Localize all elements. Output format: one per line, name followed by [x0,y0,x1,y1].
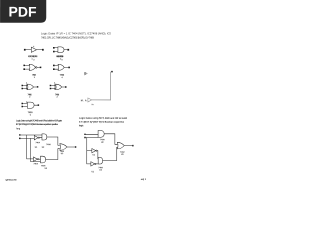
wire drop B [30,138,40,161]
inverter RU1b [91,162,95,166]
buffer arrow [88,98,92,102]
output pad L [75,146,76,147]
wire [64,66,68,68]
or-gate RU3 [117,142,124,149]
input pad B2a [53,65,55,67]
svg-text:logic: logic [79,124,84,127]
output bubble [35,67,37,69]
nand-gate U4 (7400) [58,64,64,70]
and-gate RU2b [98,157,102,164]
svg-text:log: log [16,127,21,130]
wire [97,151,98,159]
and-gate LU2a [42,134,47,140]
and-gate LU2b [40,156,45,163]
svg-text:U2: U2 [42,146,44,149]
wire or out [67,146,75,148]
input pad A2b [53,51,55,53]
svg-text:U2: U2 [99,169,101,172]
svg-text:3: 3 [26,82,27,85]
and-gate RU2a [98,131,104,138]
wire or out [124,145,132,147]
wire and1 out [47,137,60,145]
power tick [33,46,35,47]
svg-text:U2: U2 [101,141,103,144]
svg-text:2: 2 [56,95,57,98]
node Vi label [85,72,88,75]
nor-gate U3 (7402) [29,64,35,70]
inverter LU1b [33,157,37,161]
xor-gate U5 (7486) [26,84,33,90]
svg-text:6: 6 [54,82,55,85]
inverter RU1a [92,149,96,153]
input pad C2a [50,85,52,87]
svg-text:U2: U2 [45,167,47,170]
wire [37,66,40,68]
svg-text:adj 1: adj 1 [141,178,147,181]
wire [34,104,38,106]
output pad C2 [65,86,67,88]
input pad RA [84,134,85,135]
wire top tick [111,71,113,73]
svg-text:tg9 94 JL716: tg9 94 JL716 [5,178,17,181]
wire [23,85,28,88]
bubble [95,163,96,164]
input pad D1a [21,103,23,105]
svg-text:NOT GATE 7404: NOT GATE 7404 [28,55,38,58]
output pad A2 [67,49,69,51]
PDF badge [0,0,46,23]
wire [37,49,42,51]
svg-text:Logic Gates using NOT, AND and: Logic Gates using NOT, AND and OR to bui… [79,117,128,120]
wire [23,103,27,106]
svg-text:M.A: M.A [81,99,87,102]
input pad C1a [22,85,24,87]
wire B [20,137,34,139]
output pad B2 [68,67,70,69]
svg-text:It Y=(NOT A)*(NOT B)+1 Boolean: It Y=(NOT A)*(NOT B)+1 Boolean expertise [79,121,125,124]
svg-text:Logic Gates IP 1/0 = 1 IC 7404: Logic Gates IP 1/0 = 1 IC 7404 (NOT), IC… [41,32,112,35]
wire [39,158,41,160]
and-gate U2 (7408) [58,47,64,53]
svg-text:3: 3 [34,76,35,79]
wire [55,65,59,69]
xnor-gate U6 [55,84,62,90]
wire and2 out [46,149,60,160]
wire and2 out [103,147,118,160]
input pad C1b [22,88,24,90]
output pad R [132,145,133,146]
input pad C2b [50,88,52,90]
bubble [38,137,39,138]
svg-text:It Y=(NOT B)+(NOT A)*B+1 Boole: It Y=(NOT B)+(NOT A)*B+1 Boolean experti… [16,123,59,126]
svg-text:7402, CIR, 1 IC 7486 (XNA2), I: 7402, CIR, 1 IC 7486 (XNA2), IC27402 (NO… [41,36,95,39]
wire RA [86,133,98,135]
wire drop RB [87,138,92,164]
svg-text:U3: U3 [61,152,63,155]
svg-text:U3: U3 [121,153,123,156]
output pad D1 [38,104,40,106]
input pad D1b [21,106,23,108]
input pad A1 [24,49,26,51]
wire [40,137,42,139]
wire [34,86,37,88]
bubble [37,159,38,160]
wire drop A [27,135,34,159]
input pad LB [19,138,20,139]
input pad B1b [23,68,25,70]
wire RB [86,137,98,139]
output pad B1 [40,67,42,69]
bubble [96,150,97,151]
svg-text:2: 2 [29,95,30,98]
input pad B2b [53,68,55,70]
or-gate LU3 [60,144,67,151]
inverter U1 (7404) [31,47,36,52]
input pad A2a [53,47,55,49]
wire [55,48,58,52]
input pad RB [84,137,85,138]
wire [96,163,98,165]
waveform wire [92,72,111,100]
wire [62,86,65,88]
output pad C1 [37,86,39,88]
nand-gate U7 [27,102,34,108]
inverter LU1 [34,136,38,140]
wire [51,85,56,88]
svg-text:PDF: PDF [9,4,37,20]
input pad B1a [23,65,25,67]
wire [25,65,30,69]
wire A [20,134,41,136]
wire and out [104,134,117,145]
input pad LA [19,134,20,135]
wire [64,49,67,51]
svg-text:Logic Gates using NOT, AND and: Logic Gates using NOT, AND and OR to bui… [16,119,63,122]
svg-text:2: 2 [33,58,34,61]
wire [26,49,32,51]
output pad A1 [42,49,44,51]
